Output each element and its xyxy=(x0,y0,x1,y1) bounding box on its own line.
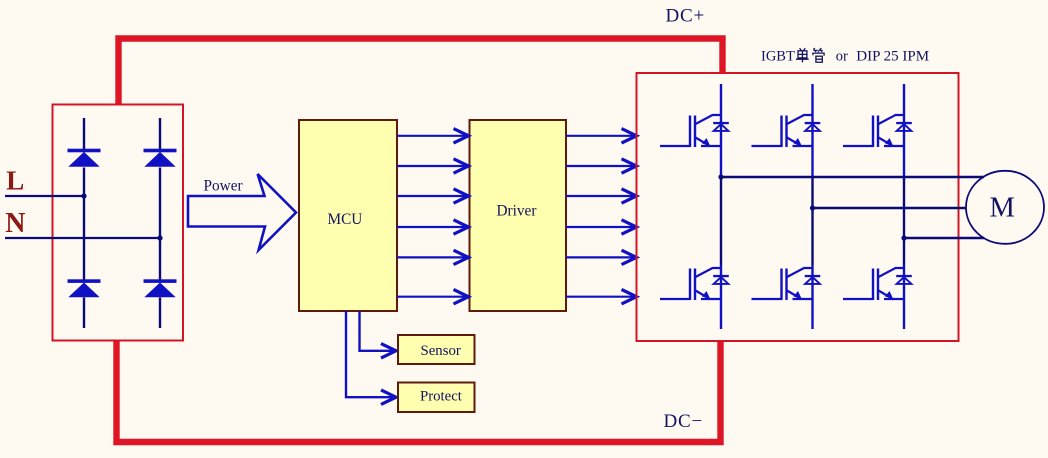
IGBT Q4 bottom leg A xyxy=(660,268,729,300)
wire MCU to Protect xyxy=(346,311,396,404)
wire MCU to Driver signal 6 xyxy=(397,290,469,304)
leg A rail middle (navy) xyxy=(720,178,722,266)
leg A rail lower (blue) xyxy=(720,265,722,329)
inverter box xyxy=(637,73,959,341)
wire N input xyxy=(5,237,160,239)
wire MCU to Driver signal 1 xyxy=(397,129,469,143)
IGBT Q6 bottom leg C xyxy=(843,268,912,300)
leg B rail lower (blue) xyxy=(811,265,813,329)
wire MCU to Driver signal 4 xyxy=(397,220,469,234)
svg-text:L: L xyxy=(6,166,24,196)
svg-text:IGBT: IGBT xyxy=(761,48,795,64)
inverter label Chinese char guan xyxy=(813,48,824,62)
wire left branch xyxy=(83,118,85,328)
wire phase W to motor xyxy=(904,237,984,239)
junction phase V xyxy=(810,205,815,210)
junction N node xyxy=(157,235,162,240)
motor M circle xyxy=(966,171,1044,244)
diode D3 xyxy=(68,279,101,297)
wire Driver to inverter signal 6 xyxy=(566,290,637,304)
svg-text:DIP 25 IPM: DIP 25 IPM xyxy=(856,48,929,64)
wire DC+ bus (thick red) xyxy=(119,39,723,105)
wire phase U to motor xyxy=(721,176,984,178)
svg-text:MCU: MCU xyxy=(328,211,363,228)
diode D2 xyxy=(144,149,177,167)
Driver block U2 xyxy=(470,120,567,311)
leg C rail middle (navy) xyxy=(903,178,905,266)
junction phase W xyxy=(901,235,906,240)
svg-text:Sensor: Sensor xyxy=(421,343,461,359)
svg-text:N: N xyxy=(5,208,25,239)
IGBT Q1 top leg A xyxy=(660,115,729,147)
wire L input xyxy=(5,195,84,197)
IGBT Q3 top leg C xyxy=(843,115,912,147)
diode D4 xyxy=(144,279,177,297)
Protect block xyxy=(398,383,475,413)
wire Driver to inverter signal 3 xyxy=(566,189,637,203)
svg-text:Driver: Driver xyxy=(497,203,537,220)
svg-text:or: or xyxy=(836,48,848,64)
junction phase U xyxy=(718,174,723,179)
leg C rail upper (blue) xyxy=(903,84,905,178)
leg B rail middle (navy) xyxy=(811,178,813,266)
wire MCU to Driver signal 3 xyxy=(397,189,469,203)
wire Driver to inverter signal 5 xyxy=(566,250,637,264)
leg B rail upper (blue) xyxy=(811,84,813,178)
leg C rail lower (blue) xyxy=(903,265,905,329)
diode D1 xyxy=(68,149,101,167)
svg-text:DC−: DC− xyxy=(664,411,704,432)
wire MCU to Sensor xyxy=(360,311,397,358)
wire DC- bus (thick red) xyxy=(117,341,721,442)
Power flow arrow xyxy=(188,174,296,250)
leg A rail upper (blue) xyxy=(720,84,722,178)
MCU block U1 xyxy=(299,120,397,311)
svg-text:DC+: DC+ xyxy=(666,5,706,26)
wire right branch xyxy=(159,118,161,328)
wire Driver to inverter signal 1 xyxy=(566,129,637,143)
svg-text:M: M xyxy=(990,192,1015,223)
IGBT Q2 top leg B xyxy=(752,115,821,147)
junction L node xyxy=(81,193,86,198)
IGBT Q5 bottom leg B xyxy=(752,268,821,300)
Sensor block xyxy=(398,335,475,364)
inverter label Chinese char dan xyxy=(796,48,809,62)
wire Driver to inverter signal 4 xyxy=(566,220,637,234)
bridge rectifier box xyxy=(53,105,184,341)
wire Driver to inverter signal 2 xyxy=(566,159,637,173)
svg-text:Protect: Protect xyxy=(420,388,463,404)
wire phase V to motor xyxy=(813,207,967,209)
wire MCU to Driver signal 5 xyxy=(397,250,469,264)
wire MCU to Driver signal 2 xyxy=(397,159,469,173)
svg-text:Power: Power xyxy=(204,178,243,195)
